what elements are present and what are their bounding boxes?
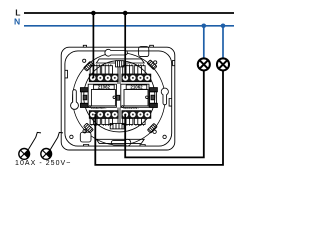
plate circular opening	[73, 53, 166, 146]
svg-text:10AX/250V~: 10AX/250V~	[123, 106, 139, 110]
plate bottom keyhole slot	[111, 139, 130, 146]
terminal tab bottom A	[90, 118, 100, 126]
module small circle	[146, 96, 149, 99]
plate edge notch bottom	[84, 145, 89, 147]
switch symbol S2	[41, 132, 63, 159]
plate edge notch top-right	[150, 45, 154, 47]
svg-text:10AX - 250V~: 10AX - 250V~	[15, 160, 71, 167]
bottom terminal band with screws	[122, 111, 151, 119]
lamp E2	[217, 58, 229, 70]
module body	[88, 84, 116, 107]
mounting plate outer outline	[61, 47, 175, 150]
left switch module 21062	[88, 64, 118, 125]
claw screw top-left	[84, 61, 94, 71]
right switch module 21062	[121, 64, 151, 125]
housing top clamp	[116, 61, 124, 67]
terminal tab top B	[134, 64, 145, 74]
terminal tab bottom B	[102, 118, 113, 126]
top terminal band with screws	[122, 74, 151, 82]
housing bottom clamp	[110, 123, 124, 128]
svg-text:N: N	[14, 17, 20, 27]
plate corner hole bottom-right outer	[163, 135, 166, 138]
plate left keyhole slot	[71, 90, 79, 110]
wire return lamp1 to right module (inner loop)	[125, 70, 204, 157]
wire N drop to lamp 1 (blue)	[203, 26, 205, 59]
label 21062	[126, 85, 147, 89]
plate corner hole top-left	[83, 59, 86, 62]
plate corner hole bottom-left outer	[70, 135, 73, 138]
plate edge notch top-left	[83, 45, 86, 47]
module small circle	[113, 96, 116, 99]
plate edge notch right upper	[173, 60, 175, 65]
switch housing top band	[96, 59, 144, 63]
right claw block	[150, 88, 158, 108]
plate edge notch right	[169, 99, 172, 107]
plate right keyhole slot	[161, 88, 168, 105]
switch symbol S1	[19, 132, 41, 159]
wire return lamp2 to left module (outer loop)	[95, 70, 223, 165]
junction dot N1 (blue)	[202, 24, 207, 29]
junction dot L1	[91, 11, 96, 16]
top terminal band with screws	[89, 74, 118, 82]
claw screw bottom-left	[84, 123, 94, 133]
terminal tab top A	[123, 64, 133, 74]
wire N line (blue)	[24, 25, 234, 27]
svg-text:21062: 21062	[98, 85, 111, 90]
module body	[121, 84, 149, 107]
terminal tab top A	[90, 64, 100, 74]
wire L drop to left module	[92, 13, 94, 78]
plate top keyhole slot	[105, 49, 127, 56]
module rating dot	[122, 106, 124, 108]
plate bottom-left square cutout	[80, 132, 91, 142]
terminal tab bottom B	[134, 118, 145, 126]
left claw block	[80, 88, 88, 108]
terminal tab top B	[102, 64, 113, 74]
plate edge notch bottom-right	[140, 145, 145, 147]
claw screw bottom-right	[147, 123, 157, 133]
label 21062	[94, 85, 115, 89]
claw screw top-right	[147, 60, 157, 70]
plate corner hole bottom-right	[153, 130, 156, 133]
junction dot N2 (blue)	[221, 24, 226, 29]
terminal tab bottom A	[123, 118, 133, 126]
plate corner hole top-right	[154, 61, 157, 64]
switch housing bottom band	[96, 139, 144, 143]
mounting plate inner contour	[65, 51, 172, 146]
svg-text:21062: 21062	[130, 85, 143, 90]
wire N drop to lamp 2 (blue)	[222, 26, 224, 59]
lamp E1	[198, 58, 210, 70]
junction dot L2	[123, 11, 128, 16]
module rating dot	[89, 106, 91, 108]
svg-text:10AX/250V~: 10AX/250V~	[91, 106, 107, 110]
plate top-right square cutout	[139, 47, 149, 57]
central rail	[116, 67, 120, 124]
wire L drop to right module	[124, 13, 126, 78]
mechanism support ring	[84, 61, 155, 132]
bottom terminal band with screws	[89, 111, 118, 119]
plate edge notch left	[65, 70, 68, 78]
plate corner hole bottom-left	[83, 129, 87, 133]
wire L line	[24, 12, 234, 14]
